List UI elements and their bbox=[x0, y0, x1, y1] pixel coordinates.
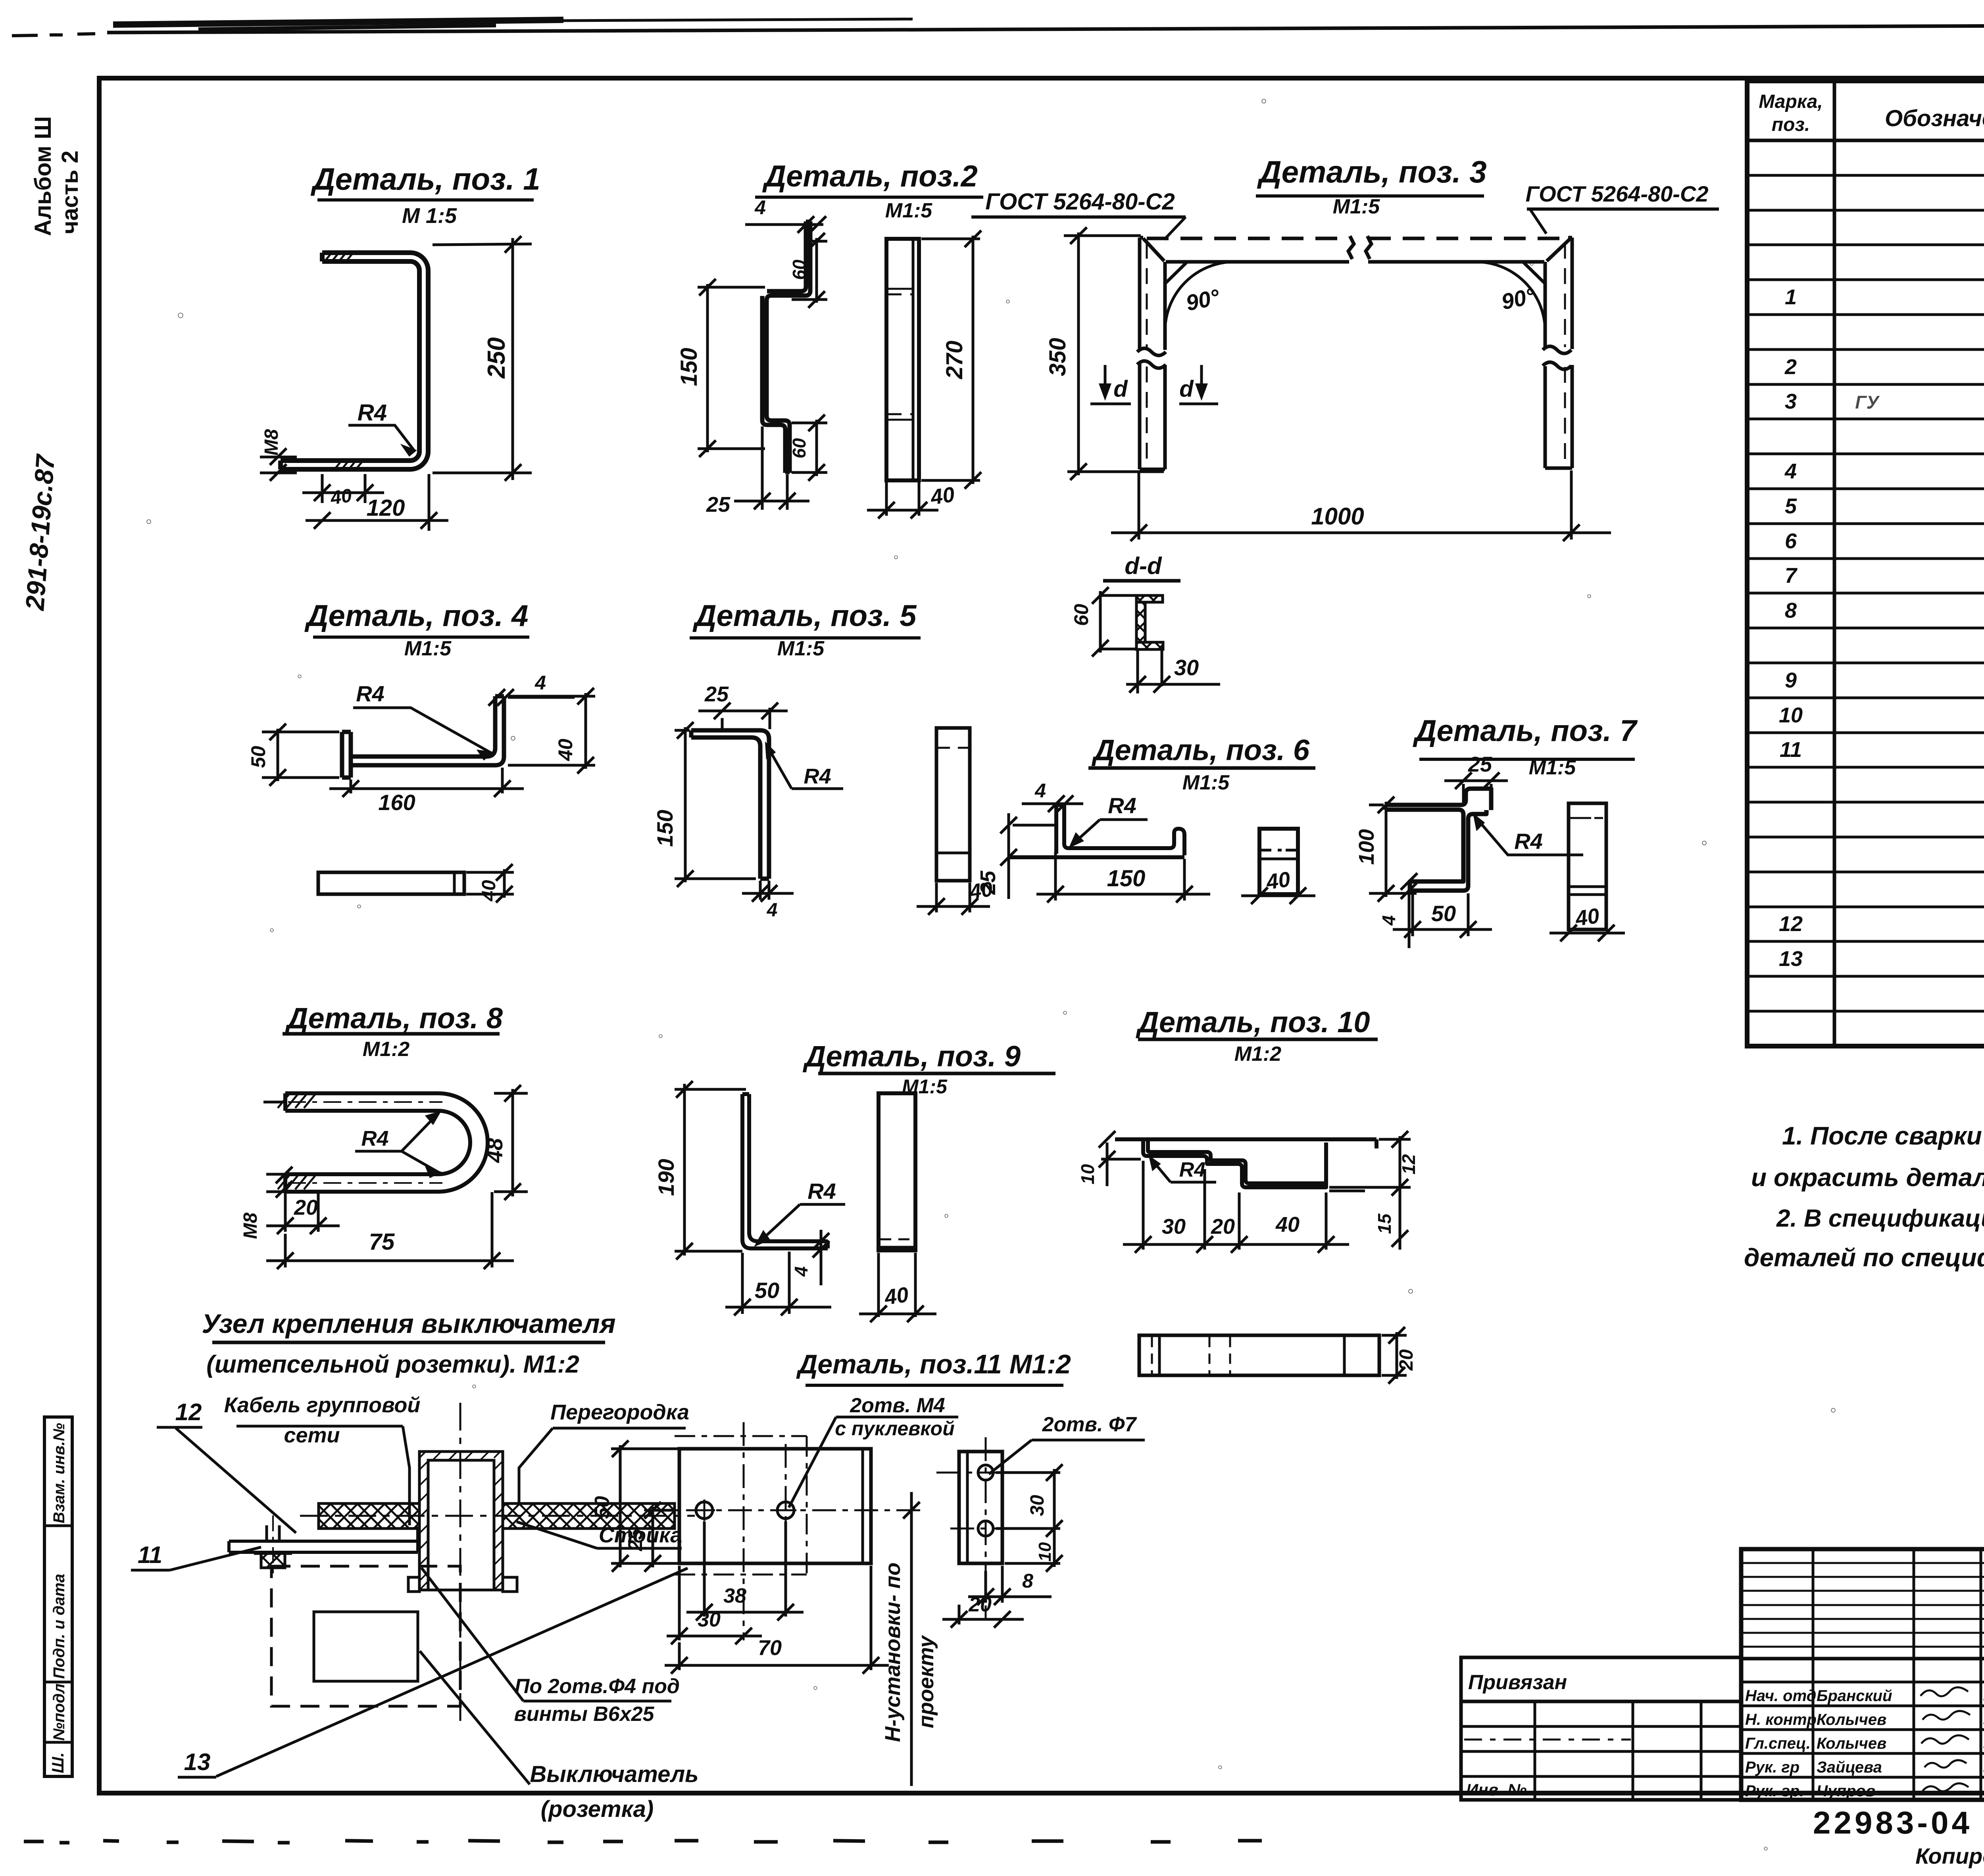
detail pos1 title bbox=[310, 161, 540, 228]
svg-text:4: 4 bbox=[754, 196, 766, 219]
svg-text:М1:5: М1:5 bbox=[1333, 195, 1380, 218]
pos11 left view plate bbox=[679, 1449, 871, 1563]
bracket plate pos11 in assembly bbox=[229, 1527, 418, 1552]
svg-text:40: 40 bbox=[1275, 1213, 1300, 1237]
svg-text:Узел крепления выключателя: Узел крепления выключателя bbox=[202, 1309, 615, 1339]
svg-text:270: 270 bbox=[942, 341, 967, 380]
pos11 dim 20 bbox=[942, 1605, 1024, 1628]
pos6 dim 25 bbox=[1000, 813, 1057, 899]
svg-text:5: 5 bbox=[1785, 494, 1797, 518]
pos1 dim M8 bbox=[260, 448, 297, 481]
pos7 dim 40 front bbox=[1550, 925, 1625, 941]
section d-d profile bbox=[1100, 595, 1163, 649]
svg-text:160: 160 bbox=[378, 790, 415, 815]
svg-text:4: 4 bbox=[1784, 459, 1797, 483]
svg-text:М8: М8 bbox=[261, 429, 282, 455]
svg-text:d-d: d-d bbox=[1125, 553, 1162, 579]
svg-text:проекту: проекту bbox=[914, 1635, 938, 1728]
svg-text:25: 25 bbox=[624, 1528, 646, 1551]
svg-text:2отв. Ф7: 2отв. Ф7 bbox=[1042, 1413, 1137, 1436]
svg-text:с пуклевкой: с пуклевкой bbox=[835, 1417, 955, 1440]
svg-text:12: 12 bbox=[1398, 1154, 1419, 1175]
detail pos5 title bbox=[690, 599, 921, 660]
svg-text:R4: R4 bbox=[361, 1127, 388, 1150]
svg-text:М8: М8 bbox=[240, 1212, 261, 1239]
pos7 dim 25 bbox=[1444, 772, 1508, 803]
svg-text:М1:5: М1:5 bbox=[404, 637, 452, 660]
svg-text:30: 30 bbox=[698, 1608, 721, 1631]
weld callout right GOST 5264-80-C2 bbox=[1525, 181, 1719, 234]
d-d dim 30 bbox=[1126, 651, 1220, 693]
pos4 dim 40 strip bbox=[466, 864, 514, 902]
svg-text:винты В6х25: винты В6х25 bbox=[514, 1703, 655, 1726]
svg-text:48: 48 bbox=[482, 1138, 507, 1163]
svg-text:250: 250 bbox=[483, 337, 510, 378]
svg-text:ГУ: ГУ bbox=[1855, 392, 1880, 413]
svg-text:60: 60 bbox=[1070, 604, 1092, 626]
pos11 dim 38 bbox=[686, 1521, 804, 1621]
pos11 bent leg dash-dot outline bbox=[675, 1436, 807, 1575]
pos2 dim 40 front bbox=[867, 482, 938, 518]
svg-text:120: 120 bbox=[367, 495, 405, 521]
pos3 angle 90 left bbox=[1165, 262, 1234, 331]
svg-text:Зайцева: Зайцева bbox=[1817, 1759, 1882, 1776]
svg-text:ГОСТ 5264-80-С2: ГОСТ 5264-80-С2 bbox=[985, 189, 1175, 215]
svg-text:Н. контр.: Н. контр. bbox=[1745, 1711, 1821, 1728]
svg-text:38: 38 bbox=[723, 1584, 746, 1607]
rozetka dashed outline bbox=[271, 1566, 460, 1706]
svg-text:25: 25 bbox=[976, 870, 1000, 895]
svg-text:75: 75 bbox=[369, 1229, 395, 1255]
pos5 front view bbox=[936, 728, 970, 881]
centerline vertical bbox=[459, 1403, 461, 1724]
svg-text:ГОСТ 5264-80-С2: ГОСТ 5264-80-С2 bbox=[1525, 181, 1708, 206]
pos10 plan strip bbox=[1139, 1335, 1379, 1375]
pos3 left vertical bar bbox=[1137, 238, 1166, 469]
svg-text:4: 4 bbox=[1034, 780, 1046, 802]
uzel title line1 bbox=[202, 1309, 615, 1378]
svg-text:М1:5: М1:5 bbox=[777, 637, 825, 660]
svg-text:(штепсельной розетки). М1:2: (штепсельной розетки). М1:2 bbox=[206, 1351, 579, 1378]
svg-text:R4: R4 bbox=[356, 681, 384, 706]
centerline horizontal bbox=[300, 1515, 695, 1517]
pos9 front view bbox=[879, 1093, 915, 1250]
svg-text:90°: 90° bbox=[1499, 283, 1538, 314]
svg-text:Инв. №: Инв. № bbox=[1466, 1780, 1526, 1799]
svg-text:30: 30 bbox=[1027, 1495, 1048, 1516]
pos1 dim 250 bbox=[433, 236, 532, 481]
pos4 dim 40 lip bbox=[508, 688, 595, 774]
svg-text:12: 12 bbox=[1779, 912, 1803, 936]
pos8 dim 75 bbox=[266, 1192, 514, 1269]
left stamp box bbox=[44, 1417, 72, 1776]
pos8 M8 label bbox=[266, 1167, 303, 1198]
svg-text:40: 40 bbox=[1574, 904, 1601, 931]
pos6 front view bbox=[1259, 829, 1298, 894]
stamp rows bbox=[1741, 1682, 1984, 1777]
svg-text:d: d bbox=[1179, 376, 1194, 402]
svg-text:15: 15 bbox=[1374, 1213, 1395, 1234]
pos3 dim 1000 bbox=[1111, 470, 1611, 541]
svg-text:Деталь, поз. 8: Деталь, поз. 8 bbox=[285, 1002, 503, 1035]
svg-text:40: 40 bbox=[883, 1283, 910, 1310]
svg-text:4: 4 bbox=[534, 672, 546, 694]
svg-text:Копировал д,: Копировал д, bbox=[1915, 1843, 1984, 1868]
svg-text:4: 4 bbox=[791, 1266, 811, 1277]
svg-text:25: 25 bbox=[704, 682, 729, 706]
pos2 front view bbox=[886, 239, 919, 480]
pos6 profile bbox=[1010, 805, 1184, 857]
svg-text:R4: R4 bbox=[1514, 829, 1543, 854]
svg-text:Деталь, поз. 7: Деталь, поз. 7 bbox=[1413, 714, 1638, 748]
svg-text:90°: 90° bbox=[1184, 284, 1222, 315]
pos6 dim 150 bbox=[1036, 852, 1210, 902]
svg-text:10: 10 bbox=[1035, 1542, 1055, 1561]
svg-text:30: 30 bbox=[1174, 655, 1199, 680]
svg-text:7: 7 bbox=[1785, 564, 1798, 588]
svg-text:11: 11 bbox=[1780, 738, 1802, 762]
svg-text:Колычев: Колычев bbox=[1817, 1711, 1886, 1728]
pos2 dim 270 bbox=[921, 230, 981, 489]
svg-text:№подл: №подл bbox=[50, 1684, 68, 1741]
detail pos4 title bbox=[304, 599, 529, 660]
svg-text:291-8-19с.87: 291-8-19с.87 bbox=[20, 453, 60, 612]
left attach box bbox=[1461, 1657, 1741, 1800]
svg-text:М 1:5: М 1:5 bbox=[402, 204, 457, 228]
pos5 profile bbox=[691, 730, 769, 879]
pos7 profile bbox=[1385, 789, 1491, 891]
pos7 dim 100 bbox=[1369, 797, 1417, 902]
pos11 dim 50 bbox=[611, 1440, 678, 1572]
pos5 dim 150 bbox=[675, 722, 756, 887]
svg-text:часть 2: часть 2 bbox=[57, 150, 83, 234]
pos9 dim 50 bbox=[725, 1252, 831, 1315]
svg-text:Перегородка: Перегородка bbox=[550, 1400, 689, 1424]
svg-text:Колычев: Колычев bbox=[1817, 1735, 1886, 1752]
svg-text:11: 11 bbox=[138, 1542, 162, 1568]
pos11 dim 70 bbox=[665, 1566, 889, 1674]
pos4 dim 50 left bbox=[262, 724, 339, 786]
pos3 section marker d right bbox=[1179, 365, 1218, 404]
section d-d title bbox=[1103, 553, 1180, 581]
scan dashes bottom bbox=[24, 1841, 1262, 1843]
svg-text:Ш.: Ш. bbox=[48, 1752, 67, 1773]
pos10 dims 30 20 40 bbox=[1123, 1161, 1349, 1253]
pos10 profile bbox=[1115, 1139, 1376, 1187]
weld callout left GOST 5264-80-C2 bbox=[971, 189, 1186, 240]
title block vertical lines bbox=[1813, 1549, 1984, 1800]
pos11 dim 25 bbox=[644, 1502, 675, 1572]
detail pos9 title bbox=[802, 1040, 1055, 1098]
svg-text:Взам. инв.№: Взам. инв.№ bbox=[50, 1423, 68, 1523]
pos1 dim 40 bbox=[302, 474, 384, 503]
pos2 dim 60 bottom bbox=[792, 415, 827, 481]
svg-text:Деталь, поз.2: Деталь, поз.2 bbox=[762, 159, 978, 193]
pos1 thread hatch bbox=[325, 253, 363, 469]
bolt with head bbox=[254, 1525, 292, 1568]
svg-text:40: 40 bbox=[329, 485, 354, 509]
d-d dim 60 bbox=[1092, 587, 1138, 657]
svg-text:12: 12 bbox=[175, 1399, 202, 1425]
pos5 dim 4 bbox=[742, 881, 794, 902]
partition hatched band left bbox=[319, 1503, 419, 1528]
scan streak top bbox=[12, 15, 1984, 36]
detail pos1 C-profile bbox=[281, 253, 428, 469]
svg-text:190: 190 bbox=[654, 1159, 679, 1196]
pos8 U-bolt bbox=[263, 1093, 488, 1192]
svg-text:13: 13 bbox=[184, 1749, 211, 1775]
pos1 dim 120 bbox=[306, 474, 448, 531]
pos2 Z-profile side view bbox=[762, 221, 810, 473]
svg-text:150: 150 bbox=[676, 348, 702, 386]
svg-text:Деталь, поз. 1: Деталь, поз. 1 bbox=[310, 161, 540, 196]
pos3 dim 350 bbox=[1064, 227, 1164, 480]
svg-text:Чупров: Чупров bbox=[1817, 1782, 1875, 1800]
dates bbox=[1983, 1689, 1984, 1798]
svg-text:20: 20 bbox=[294, 1196, 318, 1219]
pos3 top bar bbox=[1143, 236, 1571, 262]
svg-text:М1:2: М1:2 bbox=[1234, 1043, 1282, 1066]
pos2 dim 150 bbox=[698, 279, 765, 457]
pos3 corner chamfers bbox=[1165, 262, 1187, 284]
pos11 dim 8 bbox=[968, 1566, 1052, 1605]
svg-text:Привязан: Привязан bbox=[1468, 1671, 1567, 1694]
svg-text:Кабель групповой: Кабель групповой bbox=[224, 1393, 421, 1417]
svg-text:Подп. и дата: Подп. и дата bbox=[50, 1574, 68, 1679]
svg-text:50: 50 bbox=[755, 1278, 779, 1303]
svg-text:50: 50 bbox=[1431, 901, 1456, 926]
svg-text:1: 1 bbox=[1785, 285, 1797, 309]
svg-text:30: 30 bbox=[1162, 1215, 1186, 1239]
svg-text:350: 350 bbox=[1045, 338, 1071, 376]
svg-text:25: 25 bbox=[1468, 753, 1492, 776]
rozetka inner solid box bbox=[314, 1612, 418, 1681]
svg-text:1000: 1000 bbox=[1311, 503, 1364, 530]
svg-text:10: 10 bbox=[1779, 703, 1803, 727]
svg-text:2. В спецификации, в графе „пр: 2. В спецификации, в графе „примечание" … bbox=[1776, 1205, 1984, 1232]
svg-text:d: d bbox=[1113, 376, 1128, 402]
pos3 section marker d left bbox=[1090, 365, 1131, 404]
svg-text:Деталь, поз. 3: Деталь, поз. 3 bbox=[1257, 154, 1486, 189]
svg-text:Бранский: Бранский bbox=[1817, 1687, 1892, 1705]
pos11 dim 30 right bbox=[996, 1464, 1063, 1537]
svg-text:40: 40 bbox=[1265, 867, 1292, 894]
pos11 right view bbox=[959, 1452, 1002, 1563]
spec table grid bbox=[1747, 81, 1984, 1046]
svg-text:Деталь, поз. 10: Деталь, поз. 10 bbox=[1135, 1006, 1370, 1039]
svg-text:М1:5: М1:5 bbox=[1529, 756, 1576, 779]
detail pos3 title bbox=[1256, 154, 1487, 218]
svg-text:8: 8 bbox=[1785, 599, 1797, 622]
svg-text:Нач. отд: Нач. отд bbox=[1745, 1687, 1816, 1705]
pos3 right vertical bar bbox=[1543, 238, 1572, 468]
svg-text:Н-установки- по: Н-установки- по bbox=[881, 1563, 905, 1742]
pos4 dim 160 bbox=[329, 768, 524, 797]
pos3 angle 90 right bbox=[1476, 262, 1545, 331]
svg-text:Рук. гр.: Рук. гр. bbox=[1745, 1782, 1804, 1800]
svg-text:2: 2 bbox=[1784, 355, 1797, 379]
svg-text:М1:5: М1:5 bbox=[1182, 771, 1230, 794]
svg-text:4: 4 bbox=[767, 900, 778, 921]
title block outer bbox=[1741, 1549, 1984, 1800]
pos2 dim 60 top bbox=[792, 233, 827, 308]
pos2 dim 25 bottom bbox=[734, 426, 809, 510]
svg-text:9: 9 bbox=[1785, 668, 1797, 692]
pos10 dim 20 strip bbox=[1382, 1327, 1407, 1384]
svg-text:20: 20 bbox=[1396, 1349, 1417, 1371]
svg-text:поз.: поз. bbox=[1772, 114, 1810, 135]
pos9 dim 190 bbox=[675, 1081, 746, 1260]
pos11 dim 10 right bbox=[1005, 1532, 1063, 1572]
svg-text:25: 25 bbox=[706, 493, 731, 517]
svg-text:деталей по спецификации на ли: деталей по спецификации на листе 15 bbox=[1744, 1243, 1984, 1272]
pos4 profile bbox=[342, 696, 504, 778]
pos9 L-angle bbox=[742, 1094, 828, 1248]
pos11 H-ustanovki vertical bbox=[910, 1492, 913, 1786]
detail pos7 title bbox=[1413, 714, 1638, 779]
svg-text:М1:2: М1:2 bbox=[363, 1038, 410, 1061]
svg-text:Деталь, поз. 6: Деталь, поз. 6 bbox=[1091, 734, 1310, 766]
detail pos8 title bbox=[283, 1002, 503, 1061]
pos9 dim 4 bbox=[813, 1230, 829, 1285]
partition hatched band right bbox=[503, 1503, 675, 1528]
svg-text:50: 50 bbox=[247, 746, 269, 768]
detail pos10 title bbox=[1135, 1006, 1378, 1066]
svg-text:20: 20 bbox=[968, 1593, 992, 1616]
svg-text:Марка,: Марка, bbox=[1759, 91, 1823, 112]
detail pos6 title bbox=[1088, 734, 1315, 794]
svg-text:50: 50 bbox=[591, 1496, 614, 1519]
pos9 dim 40 front bbox=[859, 1253, 936, 1322]
svg-text:4: 4 bbox=[1378, 915, 1399, 926]
svg-text:Альбом Ш: Альбом Ш bbox=[30, 116, 56, 236]
svg-text:R4: R4 bbox=[807, 1179, 836, 1204]
svg-text:Деталь, поз. 5: Деталь, поз. 5 bbox=[692, 599, 917, 633]
svg-text:R4: R4 bbox=[1108, 793, 1136, 818]
pos11 centerlines left view bbox=[644, 1509, 924, 1511]
svg-text:(розетка): (розетка) bbox=[541, 1796, 654, 1822]
svg-text:6: 6 bbox=[1785, 529, 1797, 553]
svg-text:22983-04: 22983-04 bbox=[1813, 1805, 1972, 1840]
pos6 dim 40 front bbox=[1241, 887, 1315, 904]
pos7 dim 4 bbox=[1401, 873, 1417, 948]
svg-text:70: 70 bbox=[758, 1636, 782, 1660]
svg-text:150: 150 bbox=[652, 810, 677, 847]
title block thin top rows bbox=[1741, 1563, 1984, 1647]
pos11 dim 30 bbox=[667, 1566, 762, 1644]
stamp names bbox=[1745, 1687, 1892, 1800]
svg-text:20: 20 bbox=[1211, 1215, 1235, 1239]
pos10 dims 12 15 right bbox=[1329, 1131, 1411, 1250]
svg-text:Деталь, поз.11 М1:2: Деталь, поз.11 М1:2 bbox=[796, 1349, 1071, 1379]
svg-text:40: 40 bbox=[929, 482, 956, 509]
svg-text:13: 13 bbox=[1779, 947, 1803, 971]
detail pos2 title bbox=[755, 159, 983, 222]
svg-text:R4: R4 bbox=[804, 764, 831, 788]
pos8 dim 20 bbox=[266, 1192, 340, 1234]
stojka channel section bbox=[408, 1452, 517, 1592]
svg-text:8: 8 bbox=[1022, 1570, 1033, 1592]
pos7 front view bbox=[1569, 803, 1606, 929]
svg-text:Деталь, поз. 4: Деталь, поз. 4 bbox=[304, 599, 529, 633]
svg-text:Выключатель: Выключатель bbox=[530, 1761, 698, 1787]
svg-text:40: 40 bbox=[479, 880, 500, 902]
pos11 holes left view bbox=[696, 1502, 713, 1519]
svg-text:Рук. гр: Рук. гр bbox=[1745, 1759, 1799, 1776]
pos4 plan strip bbox=[318, 872, 464, 894]
pos5 dim 40 front bbox=[917, 883, 990, 915]
svg-text:150: 150 bbox=[1107, 866, 1146, 891]
svg-text:R4: R4 bbox=[1179, 1158, 1206, 1181]
pos8 centerlines bbox=[288, 1101, 442, 1103]
svg-text:40: 40 bbox=[554, 739, 577, 761]
svg-text:1. После сварки детали ( поз.3: 1. После сварки детали ( поз.3) сварные … bbox=[1782, 1121, 1984, 1150]
svg-text:По 2отв.Ф4 под: По 2отв.Ф4 под bbox=[515, 1675, 680, 1698]
svg-text:60: 60 bbox=[789, 438, 809, 459]
pos5 dim 25 bbox=[698, 703, 788, 729]
pos8 thread hatch bbox=[278, 1094, 315, 1189]
svg-text:60: 60 bbox=[789, 259, 809, 280]
svg-text:Обозначение: Обозначение bbox=[1885, 106, 1984, 131]
pos8 dim 48 bbox=[494, 1085, 528, 1200]
svg-text:10: 10 bbox=[1077, 1164, 1098, 1185]
signatures squiggles bbox=[1921, 1687, 1970, 1791]
detail pos11 title bbox=[796, 1349, 1071, 1385]
svg-text:2отв. М4: 2отв. М4 bbox=[850, 1394, 945, 1417]
pos10 dim 10 left bbox=[1099, 1131, 1141, 1186]
svg-text:R4: R4 bbox=[358, 400, 387, 426]
svg-text:и окрасить деталь серой эма: и окрасить деталь серой эмалью за два ра… bbox=[1751, 1163, 1984, 1192]
pos7 dim 50 bbox=[1393, 893, 1492, 938]
svg-text:М1:5: М1:5 bbox=[885, 199, 933, 222]
svg-text:Гл.спец.: Гл.спец. bbox=[1745, 1735, 1811, 1752]
svg-text:Деталь, поз. 9: Деталь, поз. 9 bbox=[802, 1040, 1021, 1073]
svg-text:3: 3 bbox=[1785, 390, 1797, 413]
svg-text:100: 100 bbox=[1355, 829, 1378, 865]
